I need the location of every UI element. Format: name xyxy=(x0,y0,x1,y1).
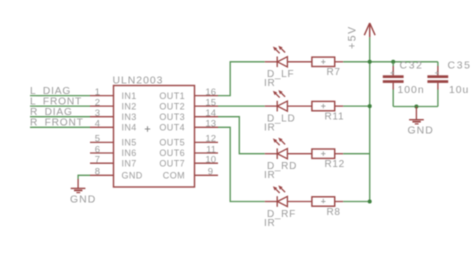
svg-text:1: 1 xyxy=(95,87,100,98)
junction +5V / row1 xyxy=(368,60,372,64)
svg-text:OUT1: OUT1 xyxy=(159,91,185,101)
svg-text:4: 4 xyxy=(95,119,100,130)
svg-text:OUT3: OUT3 xyxy=(159,112,185,122)
svg-text:R7: R7 xyxy=(327,67,341,78)
wire net L_DIAG xyxy=(30,95,90,97)
svg-text:13: 13 xyxy=(205,119,216,130)
svg-text:IN6: IN6 xyxy=(122,148,137,158)
svg-text:16: 16 xyxy=(205,87,216,98)
svg-text:C35: C35 xyxy=(448,60,472,71)
wire pin15 to LED D_LD xyxy=(218,105,265,107)
svg-text:GND: GND xyxy=(408,126,434,137)
resistor R11 xyxy=(312,101,343,110)
LED D_LD xyxy=(265,93,312,111)
ULN2003 pin names OUT1-OUT7 COM xyxy=(159,91,185,181)
svg-text:IN4: IN4 xyxy=(122,123,137,133)
svg-text:12: 12 xyxy=(205,134,216,145)
svg-text:10u: 10u xyxy=(449,85,469,96)
wire pin16 to LED D_LF xyxy=(218,62,265,96)
ULN2003 pin names IN1-IN7 GND xyxy=(122,91,143,181)
wire R11 to +5V rail xyxy=(343,105,370,107)
svg-text:GND: GND xyxy=(122,171,143,181)
wire R7 to +5V rail xyxy=(343,61,370,63)
svg-text:IN1: IN1 xyxy=(122,91,137,101)
ULN2003 pin numbers left 1-8 xyxy=(95,87,100,178)
svg-text:OUT6: OUT6 xyxy=(159,148,185,158)
svg-text:R8: R8 xyxy=(327,207,341,218)
resistor R8 xyxy=(312,197,343,206)
wire net R_FRONT xyxy=(30,126,90,128)
svg-text:OUT5: OUT5 xyxy=(159,138,185,148)
svg-text:OUT4: OUT4 xyxy=(159,123,185,133)
junction row4 / rail bottom xyxy=(368,200,372,204)
svg-text:IR: IR xyxy=(264,78,275,89)
svg-text:OUT7: OUT7 xyxy=(159,158,185,168)
junction GND tap xyxy=(414,105,418,109)
svg-text:+5V: +5V xyxy=(347,25,359,49)
svg-text:IN7: IN7 xyxy=(122,158,137,168)
svg-text:10: 10 xyxy=(205,155,216,166)
svg-text:IN5: IN5 xyxy=(122,138,137,148)
resistor R7 xyxy=(312,57,343,66)
ULN2003 origin cross xyxy=(145,126,150,131)
wire pin8 to GND xyxy=(78,175,90,179)
svg-text:IN2: IN2 xyxy=(122,101,137,111)
ground GND right symbol xyxy=(409,107,424,124)
svg-text:7: 7 xyxy=(95,155,100,166)
LED D_RF xyxy=(265,188,312,206)
wire R8 to +5V rail xyxy=(343,201,370,203)
svg-text:IR: IR xyxy=(264,122,275,133)
LED D_RD xyxy=(265,141,312,159)
svg-text:8: 8 xyxy=(95,167,100,178)
svg-text:15: 15 xyxy=(205,97,216,108)
svg-text:OUT2: OUT2 xyxy=(159,101,185,111)
capacitor C35 xyxy=(427,62,448,107)
svg-text:C32: C32 xyxy=(400,60,424,71)
svg-text:2: 2 xyxy=(95,97,100,108)
IC U1 ULN2003 box xyxy=(114,86,195,188)
wire capacitor bottoms xyxy=(393,106,438,108)
wire net R_DIAG xyxy=(30,116,90,118)
svg-text:R12: R12 xyxy=(325,159,345,170)
+5V supply symbol arrow xyxy=(364,23,375,37)
wire net L_FRONT xyxy=(30,105,90,107)
svg-text:9: 9 xyxy=(208,167,213,178)
svg-text:3: 3 xyxy=(95,108,100,119)
ULN2003 pin numbers right 16-9 xyxy=(205,87,216,178)
wire pin13 to LED D_RF xyxy=(218,127,265,201)
ULN2003 left pin stubs 1-8 xyxy=(90,96,114,176)
junction row2 / rail xyxy=(368,104,372,108)
ground GND left symbol xyxy=(71,179,86,193)
capacitor C32 xyxy=(383,62,404,107)
resistor R12 xyxy=(312,149,343,158)
wire +5V vertical rail xyxy=(369,62,371,202)
wire +5V rail to capacitors xyxy=(370,61,438,63)
ULN2003 right pin stubs 16-9 xyxy=(195,96,219,176)
wire +5V stem xyxy=(369,37,371,62)
svg-text:R11: R11 xyxy=(325,112,345,123)
svg-text:GND: GND xyxy=(70,195,96,206)
svg-text:14: 14 xyxy=(205,108,216,119)
LED D_LF xyxy=(265,49,312,67)
wire R12 to +5V rail xyxy=(343,153,370,155)
svg-text:5: 5 xyxy=(95,134,100,145)
svg-text:COM: COM xyxy=(163,171,185,181)
wire pin14 to LED D_RD xyxy=(218,117,265,154)
svg-text:IN3: IN3 xyxy=(122,112,137,122)
svg-text:IR: IR xyxy=(264,170,275,181)
junction C32 tap xyxy=(391,60,395,64)
svg-text:IR: IR xyxy=(264,218,275,229)
svg-text:100n: 100n xyxy=(398,85,425,96)
